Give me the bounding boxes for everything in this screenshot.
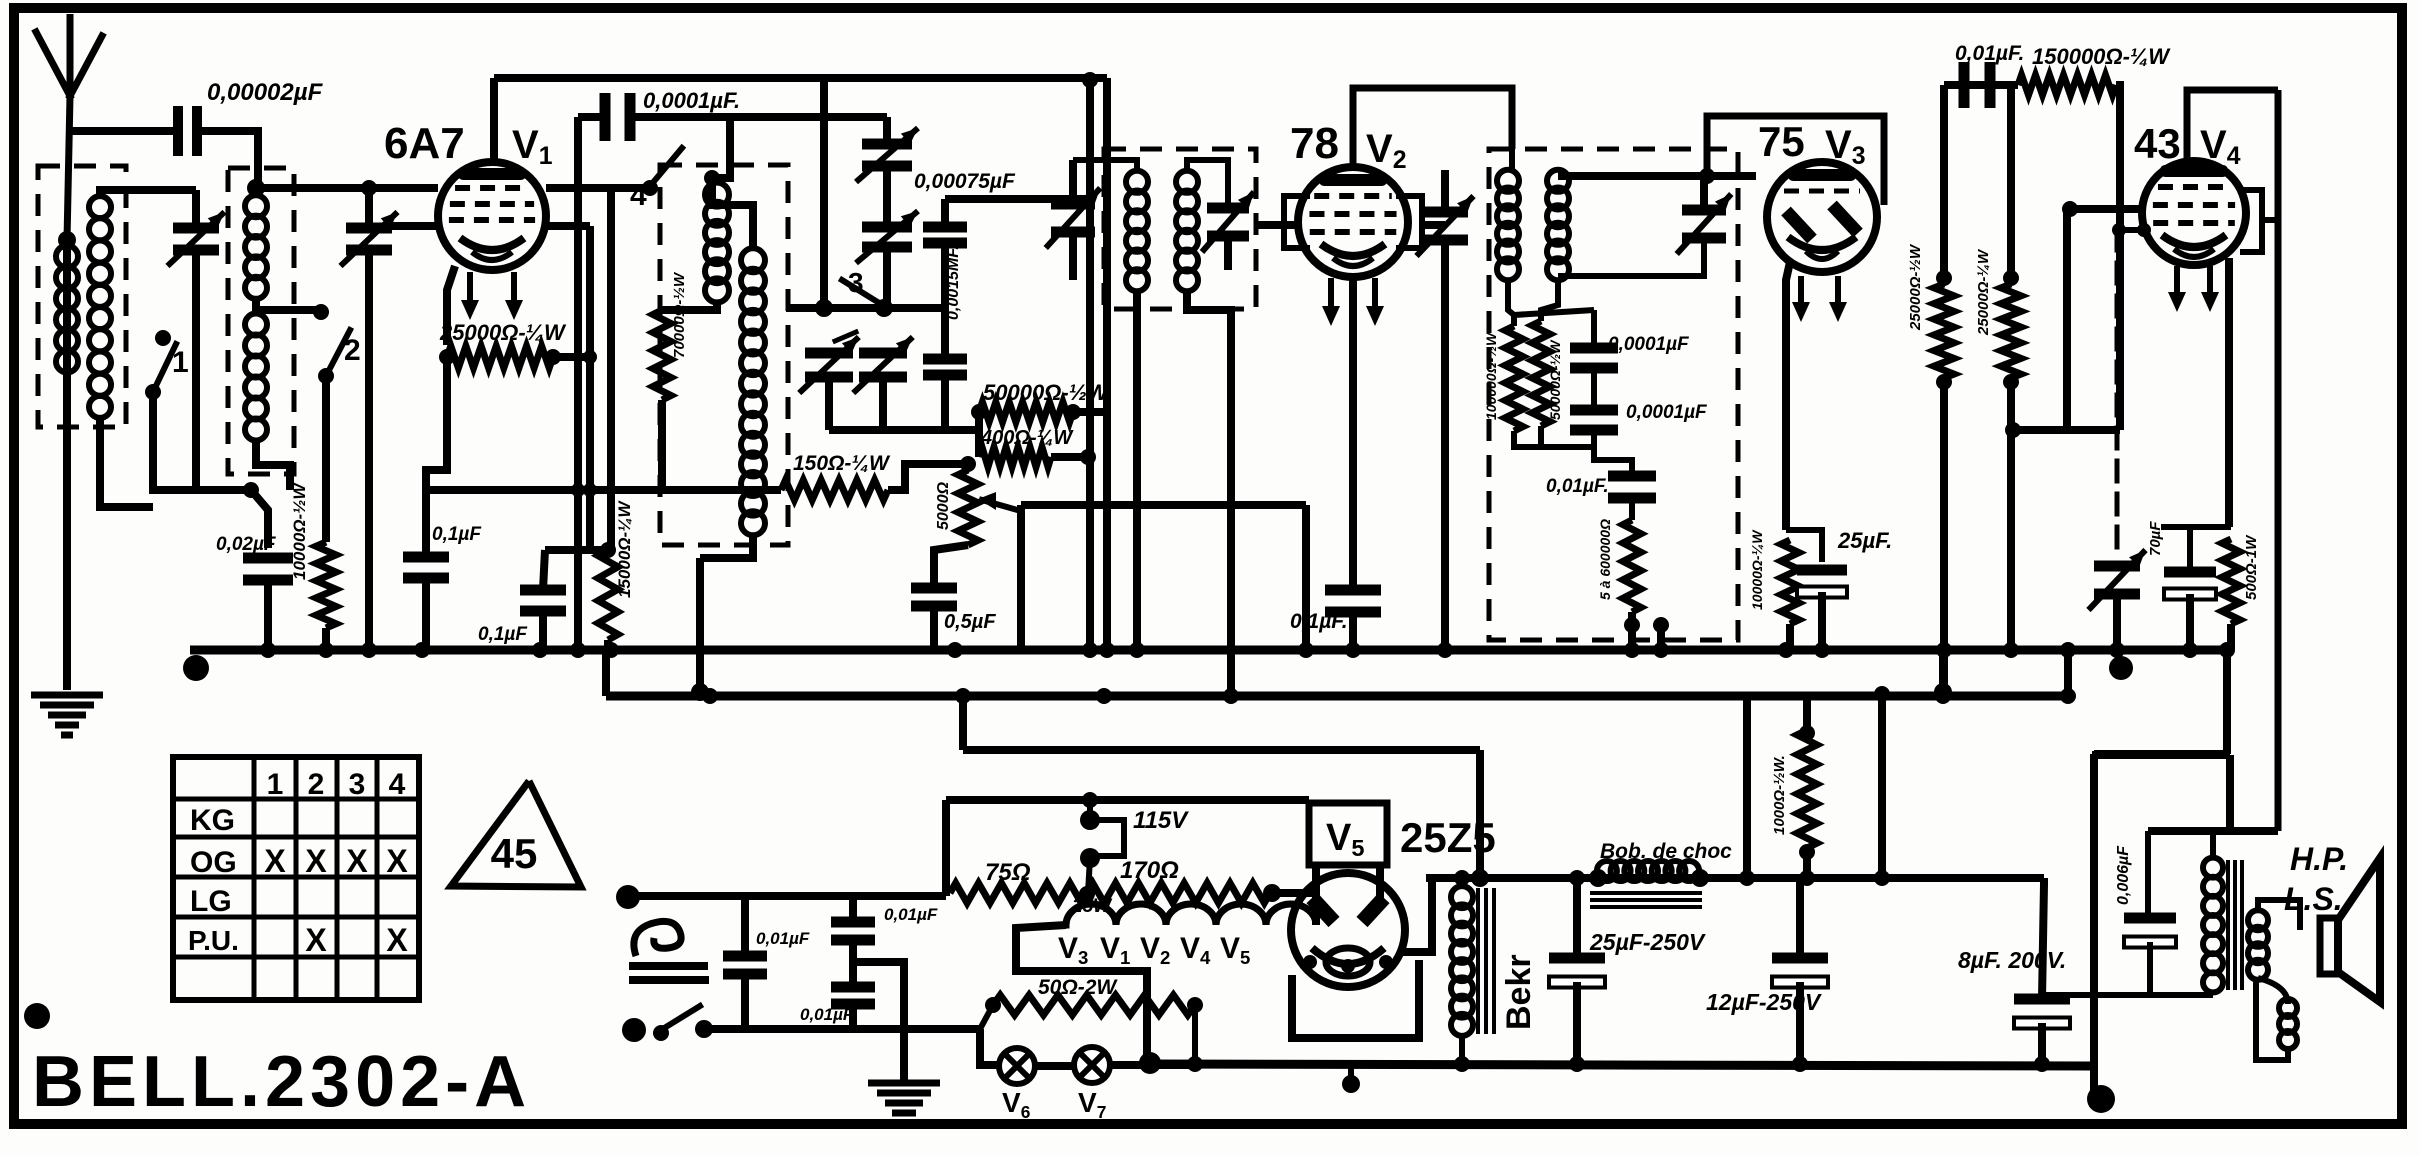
svg-text:500Ω-1W: 500Ω-1W: [2243, 534, 2260, 600]
svg-text:4: 4: [389, 768, 406, 801]
variable capacitor IF2: [1682, 205, 1726, 216]
wire varcap2 down: [365, 250, 373, 648]
dashed box antenna coils: [38, 166, 126, 427]
wire coil A2 bottom: [100, 418, 153, 507]
junction bus1 x2227: [2219, 642, 2235, 658]
node avc out b: [1653, 617, 1669, 633]
wire c8 down: [2038, 1023, 2046, 1066]
wire r15000 to bus: [604, 640, 612, 650]
switch 1 contact: [155, 330, 171, 346]
wire mid to gnd: [853, 962, 904, 1080]
node pot top: [960, 456, 976, 472]
wire y430: [2011, 426, 2120, 434]
registration dot: [24, 1003, 50, 1029]
node r a top: [1936, 270, 1952, 286]
node r50000 right: [1065, 404, 1081, 420]
node cluster a: [815, 299, 833, 317]
wire x2120 down: [2116, 85, 2120, 430]
wire grid v4 vert: [2063, 209, 2071, 430]
wire 70mf down: [2186, 594, 2194, 650]
wire pot to cap: [934, 545, 968, 588]
capacitor 70MF: [2164, 567, 2216, 578]
wire bus2 right up: [2064, 650, 2072, 696]
node r b top: [2003, 270, 2019, 286]
coil osc B: [741, 248, 765, 272]
coil IF2 secondary: [1547, 170, 1569, 192]
switch 4 arm: [650, 148, 682, 186]
junction bus2 x1943: [1935, 688, 1951, 704]
coil Bekr primary: [1451, 886, 1473, 908]
ground mains: [868, 1080, 940, 1087]
wire cap to coilbox2: [202, 131, 258, 188]
svg-text:0,01µF: 0,01µF: [884, 905, 938, 924]
resistor 75ohm: [950, 883, 1087, 903]
wire c25 down: [1573, 982, 1581, 1066]
wire x2011: [2007, 85, 2015, 284]
box V5 label: [1309, 803, 1387, 865]
variable capacitor IF1 primary: [1051, 199, 1095, 210]
wire r400 right: [1051, 453, 1090, 461]
svg-text:75Ω: 75Ω: [985, 859, 1031, 886]
resistor 25W heater: [1063, 904, 1316, 925]
wire cluster top stem: [883, 117, 891, 141]
node r a bot: [1936, 374, 1952, 390]
svg-text:0,1µF: 0,1µF: [478, 624, 528, 645]
node if2 grid: [1699, 168, 1715, 184]
junction bus1 x1445: [1437, 642, 1453, 658]
junction bus1 x1107: [1099, 642, 1115, 658]
svg-text:150000Ω-¼W: 150000Ω-¼W: [2032, 44, 2171, 69]
svg-text:78: 78: [1290, 119, 1339, 168]
resistor 150000ohm: [2018, 75, 2116, 95]
svg-text:150Ω-¼W: 150Ω-¼W: [793, 452, 891, 475]
junction bus1 x1786: [1778, 642, 1794, 658]
resistor 25000ohm quarterW: [447, 346, 553, 368]
wire if1 pri bottom: [1133, 290, 1141, 648]
wire y85: [1944, 81, 2018, 89]
wire sec bottom wire: [2042, 992, 2213, 998]
svg-text:X: X: [264, 843, 286, 879]
node bus left end: [183, 655, 209, 681]
wire c006 down: [2147, 942, 2153, 995]
node tap b: [2137, 223, 2151, 237]
wire c12 down: [1796, 982, 1804, 1066]
node r1000 top: [1799, 725, 1815, 741]
junction busbot x1800: [1792, 1056, 1808, 1072]
svg-text:50000Ω-½W: 50000Ω-½W: [1547, 339, 1563, 420]
svg-text:0,1µF.: 0,1µF.: [1290, 610, 1348, 633]
mains plug symbol: [634, 921, 681, 956]
variable capacitor tune A: [862, 139, 912, 150]
wire c8 stem: [2042, 878, 2044, 999]
svg-text:6A7: 6A7: [384, 119, 465, 168]
capacitor 12MF-250V: [1772, 953, 1828, 964]
wire 150 right: [888, 464, 970, 490]
junction bus1 x2190: [2182, 642, 2198, 658]
wire avc down: [1302, 505, 1310, 648]
wire osc grid down: [607, 188, 615, 550]
junction bus1 x1306: [1298, 642, 1314, 658]
wire r1000 stub top: [1803, 698, 1811, 730]
resistor 100000ohm: [1505, 326, 1523, 431]
lamp V6: [999, 1048, 1035, 1084]
svg-text:3: 3: [349, 768, 366, 801]
wire switch out: [704, 1025, 980, 1033]
junction busbot x1462: [1454, 1056, 1470, 1072]
wire bus3 to busB: [1476, 750, 1484, 878]
node grid junction: [247, 179, 265, 197]
wire cap002 down: [264, 580, 272, 648]
wire osc return: [696, 558, 704, 696]
wire if2 link top: [1509, 149, 1515, 172]
svg-text:X: X: [346, 843, 368, 879]
wire varcap if2 down: [1558, 238, 1704, 276]
node avc out a: [1624, 617, 1640, 633]
resistor 170ohm: [1087, 883, 1270, 903]
junction bus1 x268: [260, 642, 276, 658]
svg-text:0,01µF.: 0,01µF.: [1546, 476, 1609, 497]
wire out top: [2092, 751, 2230, 759]
dashed box IF2 AVC: [1489, 149, 1738, 640]
arrow V4 pin a: [2174, 266, 2180, 302]
svg-text:25Z5: 25Z5: [1400, 814, 1496, 861]
wire tap down: [1088, 858, 1090, 893]
resistor 5-600000ohm: [1623, 520, 1641, 612]
coil IF1 primary: [1126, 171, 1148, 193]
arrow V2 pin a: [1328, 278, 1334, 316]
junction heater tap: [1079, 886, 1095, 902]
switch 3 arm: [842, 280, 884, 306]
junction bus2 x1104: [1096, 688, 1112, 704]
capacitor 0,0001 a: [1570, 343, 1618, 354]
dashed box IF1 transformer: [1104, 149, 1256, 309]
wire V1 top to bus: [490, 78, 498, 162]
switch 1 pivot: [145, 384, 161, 400]
wire grid to sw4: [546, 184, 650, 192]
wire V1 right cathode: [546, 222, 590, 230]
tube V5 25Z5: [1291, 873, 1405, 987]
switch 2 contact: [313, 304, 329, 320]
svg-text:OG: OG: [190, 846, 237, 879]
variable capacitor antenna trim: [173, 223, 219, 234]
wire varcap v2 top: [1422, 221, 1445, 229]
svg-text:X: X: [386, 922, 408, 958]
junction busB x1577: [1569, 870, 1585, 886]
wire avc b down: [1657, 625, 1665, 650]
svg-text:15000Ω-¼W: 15000Ω-¼W: [615, 500, 634, 598]
node 170 right: [1263, 884, 1281, 902]
wire cap25 down: [1818, 592, 1826, 650]
resistor 70000ohm osc: [653, 310, 671, 400]
wire bus2 drop 1882: [1878, 698, 1886, 878]
junction busB x1700: [1692, 870, 1708, 886]
wire out feed drop: [2090, 754, 2098, 1099]
capacitor 8MF-200V: [2014, 994, 2070, 1005]
node r25k left: [439, 349, 455, 365]
variable capacitor IF1 secondary: [1207, 203, 1249, 214]
capacitor 25MF: [1797, 565, 1847, 576]
capacitor 0,0001uF osc: [600, 93, 611, 141]
junction bus1 x1661: [1653, 642, 1669, 658]
coil antenna primary: [56, 246, 78, 268]
table waveband grid: [173, 757, 419, 1000]
wire coilB top: [712, 178, 753, 250]
ground antenna: [31, 692, 103, 699]
svg-text:25µF.: 25µF.: [1837, 528, 1892, 553]
wire avc arrow down: [1017, 505, 1025, 648]
transformer Bekr core: [1476, 890, 1480, 1032]
svg-text:10000Ω-½W: 10000Ω-½W: [290, 482, 309, 580]
tube V1 6A7: [438, 162, 546, 270]
wire bus3 left up: [959, 696, 967, 750]
wire B1 top: [252, 188, 260, 196]
node grid v4: [2062, 201, 2078, 217]
wire v4 screen link: [2262, 217, 2278, 223]
junction bus1 x369: [361, 642, 377, 658]
wire 70mf stem: [2187, 527, 2193, 572]
junction bus1 x1090: [1082, 642, 1098, 658]
switch 4 contact b: [704, 170, 720, 186]
wire varcap if2 stem: [1700, 176, 1708, 210]
wire x1944 down: [1940, 378, 1948, 694]
svg-text:25000Ω-½W: 25000Ω-½W: [1907, 243, 1924, 331]
wire v5 plate b: [1376, 865, 1384, 902]
wire grid to V1: [256, 184, 438, 192]
wire r15000 link: [545, 546, 608, 554]
node choke left: [1589, 869, 1607, 887]
coil IF2 primary: [1497, 170, 1519, 192]
potentiometer 5000ohm: [958, 470, 978, 545]
svg-text:5 à 600000Ω: 5 à 600000Ω: [1597, 519, 1613, 600]
wire sec top link: [2258, 900, 2300, 930]
svg-text:45: 45: [491, 830, 538, 877]
node r b bot: [2003, 374, 2019, 390]
svg-text:5000Ω: 5000Ω: [935, 481, 952, 530]
svg-text:50Ω-2W: 50Ω-2W: [1038, 976, 1118, 999]
svg-text:KG: KG: [190, 804, 235, 837]
wire V2 cathode: [1349, 277, 1357, 590]
svg-text:0,00075µF: 0,00075µF: [914, 170, 1016, 193]
wire varcapB down: [883, 247, 891, 308]
node mains switch a: [622, 1018, 646, 1042]
stub below bus: [1348, 1066, 1354, 1082]
junction avc cross a: [571, 483, 585, 497]
node r25k right: [545, 349, 561, 365]
wire r25k left down: [426, 357, 447, 490]
wire 1747 drop: [1743, 698, 1751, 878]
svg-text:BELL.2302-A: BELL.2302-A: [32, 1042, 531, 1122]
node mains switch b: [653, 1025, 669, 1041]
dashed wire tone: [2115, 230, 2120, 560]
wire bekr bottom: [1459, 1034, 1465, 1066]
svg-text:Bekr: Bekr: [1500, 954, 1538, 1030]
node cluster b: [875, 299, 893, 317]
svg-text:0,00002µF: 0,00002µF: [207, 79, 324, 106]
wire 150 left: [426, 486, 781, 494]
svg-text:X: X: [305, 843, 327, 879]
wire r500 down: [2227, 624, 2235, 650]
wire cap v2 down: [1349, 612, 1357, 650]
wire if1 sec top: [1187, 160, 1228, 204]
capacitor 0,01uF mains C: [831, 982, 875, 993]
tube V3 75: [1767, 162, 1877, 272]
capacitor 0,02uF: [243, 553, 293, 564]
resistor 25000ohm halfW v4: [1934, 284, 1954, 378]
node busB 1882: [1874, 870, 1890, 886]
node choke right: [1691, 869, 1709, 887]
wire r50 left stub: [980, 1005, 993, 1029]
junction bus1 x326: [318, 642, 334, 658]
wire switch1 down: [153, 392, 251, 490]
wire out bracket: [2148, 827, 2278, 835]
wire heater left: [1016, 925, 1147, 1060]
svg-text:4: 4: [630, 179, 647, 212]
dashed box oscillator coils: [660, 165, 788, 545]
variable capacitor band: [346, 223, 392, 234]
wire v4 cath bracket: [2161, 524, 2231, 530]
wire varcap1 to node: [192, 310, 200, 490]
wire res top bracket: [1514, 310, 1594, 315]
svg-text:0,5µF: 0,5µF: [944, 611, 996, 633]
wire V3 plate bracket: [1707, 116, 1884, 205]
capacitor padder: [923, 354, 967, 365]
wire y199: [945, 195, 1090, 203]
resistor 15000ohm quarterW: [598, 550, 618, 640]
wire antenna down: [63, 240, 71, 690]
node v5 pin a: [1303, 955, 1317, 969]
node bus2 1882: [1874, 686, 1890, 702]
wire varcap2 stem up: [365, 188, 373, 228]
arrow V3 pin a: [1798, 276, 1804, 312]
antenna: [67, 14, 74, 96]
node r50 left: [985, 997, 1001, 1013]
junction bus1 x1137: [1129, 642, 1145, 658]
variable capacitor V2 right: [1422, 207, 1468, 218]
capacitor 0,1MF V2: [1325, 585, 1381, 596]
svg-text:1: 1: [267, 768, 284, 801]
coil osc A: [705, 183, 729, 207]
capacitor 25MF-250V: [1549, 953, 1605, 964]
resistor 50000ohm: [1532, 321, 1550, 426]
junction avc cross b: [583, 483, 597, 497]
wire v4 cathode: [2225, 258, 2233, 527]
coil osc C: [741, 433, 765, 457]
wire feed down: [942, 800, 950, 896]
junction bus1 x611: [603, 642, 619, 658]
wire avc a down: [1628, 612, 1636, 650]
wire varcap1 bottom: [192, 250, 200, 310]
wire mains cap A down: [741, 974, 749, 1029]
wire V4 plate drop: [2275, 90, 2282, 831]
wire v5 out: [1402, 878, 1432, 952]
wire heater feed: [946, 796, 1309, 804]
junction bus2 x963: [955, 688, 971, 704]
junction bus1 x1632: [1624, 642, 1640, 658]
wire res bottoms: [1514, 431, 1594, 447]
bus ground main: [190, 646, 2231, 655]
coil HP primary: [2203, 858, 2223, 878]
junction bus1 x1822: [1814, 642, 1830, 658]
wire antenna to cap: [70, 127, 173, 135]
wire if2 res top a: [1508, 278, 1514, 326]
svg-text:0,006µF: 0,006µF: [2115, 845, 2132, 905]
capacitor 0,01uF mains B: [831, 917, 875, 928]
junction cath r25k: [583, 350, 597, 364]
junction busbot x2042: [2034, 1056, 2050, 1072]
junction bus1 x955: [947, 642, 963, 658]
svg-text:43: 43: [2134, 120, 2181, 167]
wire cluster bottom bracket: [829, 426, 979, 434]
coil band B1: [245, 195, 267, 217]
junction bus1 x2068: [2060, 642, 2076, 658]
wire cap a stem: [1591, 310, 1597, 348]
wire if1 sec bottom: [1187, 290, 1231, 694]
svg-text:25µF-250V: 25µF-250V: [1589, 929, 1706, 955]
wire r10000 down: [322, 628, 330, 648]
wire mains cap C down: [849, 1004, 857, 1029]
capacitor 0,00075: [923, 222, 967, 233]
wire 115V stub: [1087, 800, 1093, 820]
wire tone down: [2113, 594, 2121, 650]
node r50000 left: [971, 404, 987, 420]
wire cap01b stem: [543, 550, 545, 590]
wire r25k right link: [553, 353, 590, 361]
wire r v3 down: [1786, 624, 1794, 650]
svg-text:0,0001µF.: 0,0001µF.: [643, 88, 740, 113]
node r1000 bot: [1799, 844, 1815, 860]
capacitor 0,5MF: [911, 583, 957, 594]
wire out right down: [2226, 755, 2234, 831]
wire r70000 down: [658, 400, 666, 490]
variable capacitor tone: [2094, 561, 2140, 572]
wire lamp box left: [980, 1029, 999, 1065]
wire c12 stem: [1796, 878, 1804, 958]
resistor 50ohm-2W: [993, 995, 1195, 1015]
capacitor 0,01MF top: [1959, 62, 1970, 108]
junction busB x1747: [1739, 870, 1755, 886]
junction bus2 x2068: [2060, 688, 2076, 704]
capacitor 0,01 avc: [1608, 471, 1656, 482]
wire v5 plate a: [1312, 865, 1320, 902]
switch 4 pivot: [642, 180, 658, 196]
node y430: [2005, 422, 2021, 438]
wire cluster bottom c: [941, 375, 949, 430]
switch 2 pivot: [318, 368, 334, 384]
wire 1943 link: [1939, 650, 1947, 696]
svg-text:25000Ω-¼W: 25000Ω-¼W: [1975, 248, 1992, 336]
wire grid wire V3: [1558, 172, 1756, 180]
variable capacitor tune C: [805, 348, 853, 359]
wire c25 stem: [1573, 878, 1581, 958]
wire varcapA down: [883, 166, 891, 224]
coil band B2: [245, 314, 267, 336]
coil IF1 secondary: [1176, 171, 1198, 193]
wire grid tap 2: [2117, 227, 2146, 233]
wire switch2 down: [322, 376, 330, 542]
wire mains top: [628, 892, 946, 900]
wire out feed up: [2223, 650, 2231, 754]
node mains top: [616, 885, 640, 909]
wire V3 cathode: [1786, 262, 1790, 530]
wire pot stub: [964, 464, 972, 470]
wire if1 top bracket: [1073, 160, 1137, 172]
wire r56 stem: [1629, 498, 1635, 520]
node mains switch c: [695, 1020, 713, 1038]
svg-text:115V: 115V: [1133, 807, 1189, 834]
wire cap01b down: [539, 611, 547, 648]
node v5 pin c: [1379, 955, 1393, 969]
wire varcap if1 stem: [1069, 160, 1077, 204]
